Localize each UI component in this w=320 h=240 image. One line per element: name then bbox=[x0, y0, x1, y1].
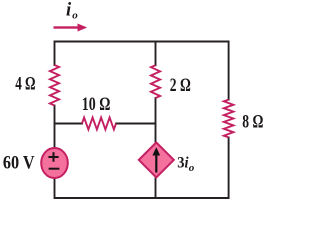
svg-text:2 Ω: 2 Ω bbox=[170, 76, 191, 96]
svg-text:10 Ω: 10 Ω bbox=[82, 95, 111, 115]
svg-text:o: o bbox=[189, 162, 195, 174]
svg-text:3i: 3i bbox=[177, 154, 189, 171]
svg-text:4 Ω: 4 Ω bbox=[15, 74, 35, 94]
svg-text:60 V: 60 V bbox=[3, 154, 35, 174]
svg-text:8 Ω: 8 Ω bbox=[242, 113, 263, 133]
svg-text:i: i bbox=[66, 0, 72, 20]
svg-text:o: o bbox=[72, 10, 78, 22]
